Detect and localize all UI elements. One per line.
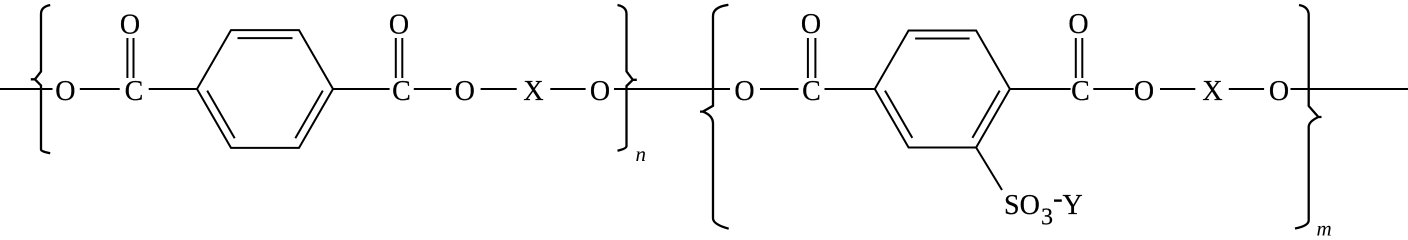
double bond C2=O <box>395 38 397 78</box>
svg-text:C: C <box>802 76 821 107</box>
repeat-unit opening brace m <box>700 5 729 229</box>
wire X to O3 <box>550 88 585 90</box>
svg-text:O: O <box>1269 76 1289 107</box>
wire O3 through braces to O4 <box>614 88 730 90</box>
wire C1 to ring <box>149 88 197 90</box>
repeat-unit closing brace n <box>618 5 637 151</box>
benzene ring 2 <box>875 31 1010 148</box>
wire C3 to ring 2 <box>825 88 875 90</box>
bond ring 2 to sulfonate S <box>976 148 1002 191</box>
wire O2 to X <box>481 88 517 90</box>
svg-text:3: 3 <box>1041 205 1053 231</box>
double bond C1=O <box>126 38 128 78</box>
svg-text:n: n <box>636 142 647 166</box>
svg-text:X: X <box>1202 76 1222 107</box>
svg-text:m: m <box>1317 217 1332 239</box>
sulfonate superscript minus <box>1054 199 1062 201</box>
wire X2 to O6 <box>1229 88 1264 90</box>
ring 2 double bond lower-left <box>885 91 912 138</box>
svg-text:O: O <box>590 76 610 107</box>
wire O to C <box>80 88 120 90</box>
wire O4 to C3 <box>760 88 799 90</box>
wire left chain start <box>0 88 53 90</box>
svg-text:O: O <box>801 9 821 40</box>
repeat-unit opening brace n <box>31 5 50 153</box>
wire O6 to right edge <box>1291 88 1408 90</box>
repeat-unit closing brace m <box>1295 5 1322 229</box>
svg-text:O: O <box>389 10 409 41</box>
svg-text:C: C <box>125 76 144 107</box>
wire ring to C2 <box>333 88 390 90</box>
sulfonate group label SO3-Y <box>1004 190 1083 231</box>
wire C2 to O2 <box>414 88 452 90</box>
double bond C4=O <box>1075 38 1077 78</box>
wire ring 2 to C4 <box>1010 88 1071 90</box>
wire C4 to O5 <box>1093 88 1133 90</box>
svg-text:O: O <box>455 76 475 107</box>
svg-text:SO: SO <box>1004 190 1040 221</box>
svg-text:O: O <box>1068 9 1088 40</box>
ring 1 double bond lower-right <box>295 91 323 139</box>
wire O5 to X2 <box>1160 88 1195 90</box>
svg-text:O: O <box>734 76 754 107</box>
ring 2 double bond lower-right <box>972 91 999 138</box>
benzene ring 1 <box>197 30 333 148</box>
svg-text:O: O <box>1134 76 1154 107</box>
ring 2 double bond top <box>915 38 970 40</box>
svg-text:C: C <box>1071 76 1090 107</box>
svg-text:C: C <box>392 76 411 107</box>
svg-text:Y: Y <box>1063 190 1083 221</box>
ring 1 double bond top <box>238 37 293 39</box>
svg-text:X: X <box>523 76 543 107</box>
ring 1 double bond lower-left <box>207 91 235 139</box>
svg-text:O: O <box>55 76 75 107</box>
double bond C3=O <box>807 38 809 78</box>
svg-text:O: O <box>120 10 140 41</box>
